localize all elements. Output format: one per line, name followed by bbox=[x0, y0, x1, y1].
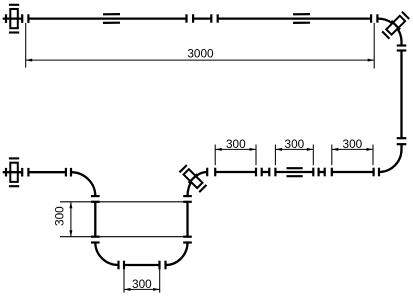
dimension 300 (second, middle pipe) bbox=[275, 145, 313, 166]
elbow arc E5 (bottom-left) bbox=[95, 243, 118, 266]
svg-text:300: 300 bbox=[53, 206, 67, 226]
elbow arc E2 (right side, vertical to horizontal) bbox=[379, 150, 402, 173]
wire: top pipe short spool between F1 and F2 bbox=[193, 17, 211, 19]
sleeve coupling M1 on top pipe bbox=[103, 14, 120, 23]
dimension 300 (first, middle pipe) bbox=[215, 145, 256, 166]
svg-text:300: 300 bbox=[285, 137, 305, 151]
wire: middle pipe segment left bbox=[215, 171, 256, 173]
elbow arc E3 (junction, vertical up to horizontal right) bbox=[188, 172, 208, 196]
wire: top pipe run segment 2 bbox=[218, 17, 371, 19]
flange joint F8 (tick pair) bbox=[66, 168, 71, 177]
wire: right vertical drop pipe stub above F4 bbox=[400, 42, 402, 46]
wire: right vertical pipe stub below F5 bbox=[400, 144, 402, 149]
flange joint F5 on right drop pipe (tick pair) bbox=[397, 138, 407, 144]
flange joint F7 at left end of middle pipe (tick pair) bbox=[207, 168, 215, 177]
elbow arc E6 (bottom-right) bbox=[166, 243, 188, 266]
valve V3 (45-degree valve on top-right elbow) bbox=[381, 11, 409, 39]
dimension 300 (third, middle pipe) bbox=[332, 145, 373, 166]
svg-text:300: 300 bbox=[132, 277, 152, 291]
flange joint F13 on right riser (tick pair) bbox=[183, 237, 192, 243]
dimension 300 (vertical, left riser) bbox=[60, 202, 188, 237]
elbow arc E4 (left, horizontal to vertical down) bbox=[71, 172, 95, 196]
svg-text:300: 300 bbox=[226, 137, 246, 151]
flanged fitting A2 on middle pipe (four ticks) bbox=[313, 168, 332, 177]
flange joint F3 at top-right pipe end (tick pair) bbox=[371, 14, 377, 22]
valve V4 (left-middle, flanged valve with end bars) bbox=[3, 158, 29, 186]
elbow arc E1 (top-right, horizontal to vertical) bbox=[378, 19, 402, 42]
svg-text:3000: 3000 bbox=[187, 47, 214, 61]
flange joint F14 on right riser (tick pair) bbox=[183, 196, 192, 202]
wire: left horizontal pipe bbox=[28, 171, 66, 173]
flange joint F10 on left riser (tick pair) bbox=[91, 237, 100, 243]
wire: right vertical drop pipe bbox=[400, 51, 402, 139]
valve V1 (top-left, flanged valve with end bars) bbox=[3, 5, 29, 33]
flange joint F6 at right end of middle pipe (tick pair) bbox=[374, 168, 379, 177]
svg-text:300: 300 bbox=[343, 137, 363, 151]
wire: top pipe run segment 1 bbox=[28, 17, 186, 19]
flange joint F1 on top pipe (tick pair) bbox=[187, 14, 194, 22]
flanged fitting A1 on middle pipe (four ticks) bbox=[256, 168, 275, 177]
wire: right vertical pipe of loop bbox=[186, 202, 188, 237]
dimension 300 (bottom pipe) bbox=[124, 268, 160, 293]
flange joint F4 on right drop pipe (tick pair) bbox=[397, 46, 407, 51]
wire: bottom horizontal pipe bbox=[124, 264, 160, 266]
flange joint F2 on top pipe (tick pair) bbox=[211, 14, 217, 22]
sleeve coupling M2 on top pipe bbox=[293, 14, 310, 23]
wire: spool inside fitting A2 bbox=[319, 171, 325, 173]
flange joint F9 on left riser (tick pair) bbox=[91, 196, 100, 202]
flange joint F12 on bottom pipe (tick pair) bbox=[160, 261, 166, 270]
flange joint F11 on bottom pipe (tick pair) bbox=[119, 261, 125, 270]
wire: middle pipe segment center bbox=[275, 171, 313, 173]
sleeve coupling M3 on middle pipe bbox=[287, 168, 303, 176]
valve V2 (45-degree valve on junction elbow) bbox=[179, 164, 207, 192]
wire: left vertical pipe bbox=[94, 202, 96, 237]
dimension 3000 (top) bbox=[26, 23, 375, 69]
wire: spool inside fitting A1 bbox=[262, 171, 270, 173]
wire: middle pipe segment right bbox=[332, 171, 374, 173]
